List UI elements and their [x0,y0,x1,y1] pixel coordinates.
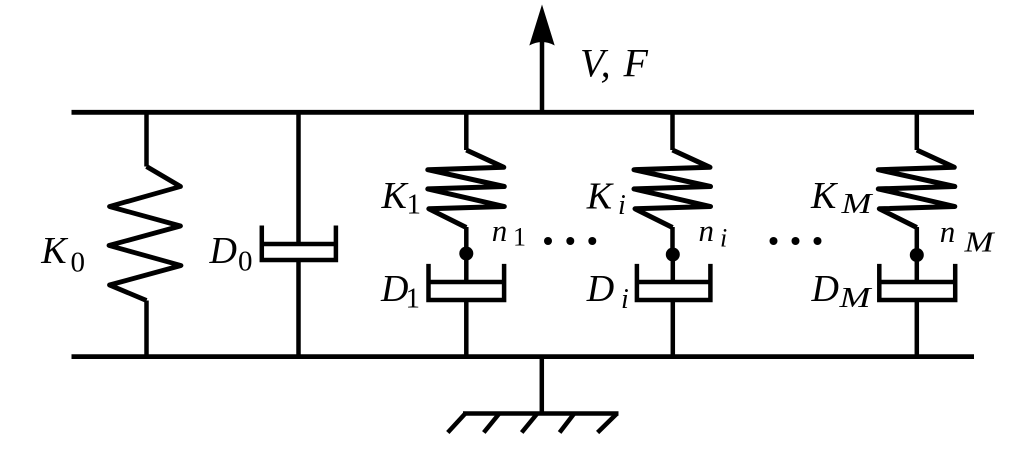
ground [448,357,619,433]
damper DM [879,264,955,300]
svg-text:K: K [381,175,409,217]
wire node ni to damper Di [671,255,676,283]
svg-text:V, F: V, F [580,41,649,86]
svg-text:i: i [618,190,626,221]
label n1 [492,213,526,252]
label DM [811,268,873,314]
svg-text:M: M [838,283,873,314]
svg-text:D: D [380,268,408,310]
label D1 [380,268,420,315]
label nM [940,214,996,259]
svg-text:K: K [40,230,68,272]
wire spring Ki to node ni [670,227,675,255]
ellipsis dots left [544,237,596,245]
svg-text:i: i [621,284,629,315]
spring K1 [428,150,505,228]
spring Ki [634,150,711,228]
svg-text:n: n [699,213,715,248]
wire node n1 to damper D1 [464,254,469,283]
bottom rail wire [72,354,975,359]
wire bottom of branch i [671,300,676,357]
wire top of K0 [144,112,149,167]
damper D0 [262,226,336,261]
force arrow V,F [529,5,554,115]
svg-text:n: n [492,213,508,248]
label Di [586,268,629,315]
wire bottom of branch 1 [464,300,469,357]
svg-text:1: 1 [406,283,421,315]
label KM [810,175,874,220]
label K0 [40,230,85,279]
wire bottom of D0 [296,260,301,357]
svg-text:D: D [209,230,237,272]
wire spring KM to node nM [915,227,920,255]
damper Di [637,264,711,300]
svg-text:1: 1 [513,223,526,252]
wire bottom of branch M [915,300,920,357]
spring K0 [109,167,181,301]
svg-text:0: 0 [238,246,253,278]
node nM [910,248,924,262]
wire top of branch 1 [464,112,469,150]
wire top of branch M [915,112,920,150]
svg-text:i: i [720,224,727,253]
svg-text:M: M [963,228,995,259]
svg-text:D: D [811,268,839,310]
svg-text:1: 1 [407,189,422,221]
svg-text:K: K [586,176,614,218]
node n1 [459,247,473,261]
label D0 [209,230,253,278]
wire top of D0 [296,112,301,245]
ellipsis dots right [770,237,822,245]
wire node nM to damper DM [915,255,920,282]
wire top of branch i [670,112,675,150]
svg-text:n: n [940,214,956,249]
spring KM [878,150,955,228]
svg-text:M: M [840,189,873,220]
wire spring K1 to node n1 [464,227,469,254]
damper D1 [429,264,505,300]
wire bottom of K0 [144,301,149,357]
label Ki [586,176,626,222]
svg-text:K: K [810,175,838,217]
label ni [699,213,728,253]
label K1 [381,175,422,221]
node ni [666,248,680,262]
svg-text:0: 0 [71,247,86,279]
top rail wire [72,110,975,115]
svg-text:D: D [586,268,614,310]
